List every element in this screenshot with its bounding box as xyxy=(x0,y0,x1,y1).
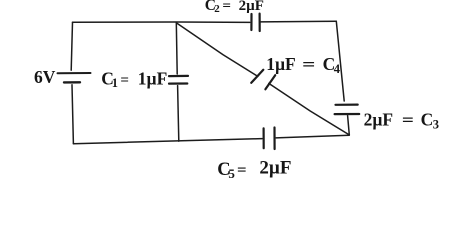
label C1 = 1uF xyxy=(101,68,167,90)
wire battery to bottom-left corner xyxy=(72,85,73,144)
svg-text:1µF=C4: 1µF=C4 xyxy=(266,54,341,76)
label 2uF = C3 xyxy=(364,109,439,131)
svg-text:C5=2µF: C5=2µF xyxy=(217,158,291,182)
svg-text:C2=2µF: C2=2µF xyxy=(205,0,264,15)
wire bottom, right segment (corner to C5) xyxy=(276,135,349,138)
wire left: top-left corner down to battery xyxy=(71,22,72,70)
battery V1 (6V) plates xyxy=(58,73,91,82)
capacitor C2 plates xyxy=(251,14,259,31)
wire bottom, left segment (C5 to bottom-left corner) xyxy=(73,139,262,144)
label C2 = 2uF xyxy=(205,0,264,15)
wire diagonal, lower segment (C4 to bottom-right corner) xyxy=(269,83,350,134)
capacitor C1 plates xyxy=(169,76,188,84)
wire top, right segment (C2 to top-right corner) xyxy=(261,20,337,23)
wire top, left segment (to C2) xyxy=(73,21,250,23)
wire C3 to bottom-right corner xyxy=(348,116,350,135)
wire middle branch, top (junction to C1) xyxy=(175,22,178,74)
wire right: top-right corner down to C3 xyxy=(336,21,344,101)
svg-text:6V: 6V xyxy=(34,67,56,87)
capacitor C4 plates (perpendicular to diagonal) xyxy=(251,70,275,90)
capacitor C3 plates xyxy=(335,105,360,115)
capacitor C5 plates xyxy=(264,128,275,150)
label C5 = 2uF xyxy=(217,158,291,182)
svg-text:2µF=C3: 2µF=C3 xyxy=(364,109,439,131)
svg-text:C1=1µF: C1=1µF xyxy=(101,68,167,90)
label battery 6V xyxy=(34,67,56,87)
label 1uF = C4 xyxy=(266,54,341,76)
wire diagonal, upper segment (top junction to C4) xyxy=(177,23,258,76)
wire middle branch, bottom (C1 to bottom wire junction) xyxy=(178,86,179,142)
